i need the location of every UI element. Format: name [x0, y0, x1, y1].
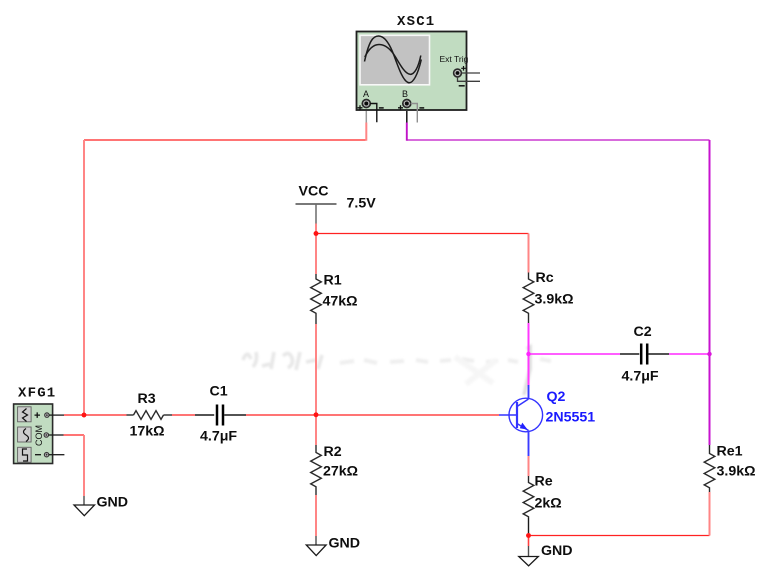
Ext Trig terminal — [454, 69, 462, 77]
wire: scope A probe drop — [365, 111, 367, 123]
wire: VCC to node — [315, 224, 317, 234]
wire: scope A net horizontal y=140 — [84, 139, 366, 141]
XFG1 function generator — [14, 386, 65, 464]
svg-text:B: B — [402, 89, 408, 99]
svg-text:3.9kΩ: 3.9kΩ — [535, 292, 574, 308]
node: input junction — [82, 413, 87, 418]
svg-text:A: A — [363, 89, 369, 99]
node: VCC junction — [314, 231, 319, 236]
ground GND (R2) — [306, 536, 360, 556]
svg-text:C1: C1 — [210, 384, 228, 400]
node: emitter ground junction — [526, 533, 531, 538]
wire: R3 to C1 — [172, 414, 195, 416]
wire: node to R2 — [315, 415, 317, 445]
wire: collector lead blue — [528, 385, 530, 399]
svg-text:GND: GND — [541, 543, 573, 559]
svg-text:C2: C2 — [634, 324, 652, 340]
oscilloscope XSC1 — [357, 14, 481, 123]
resistor Rc 3.9k — [523, 270, 573, 323]
XFG1 pin stubs — [49, 414, 64, 416]
node: output — [707, 352, 711, 356]
svg-text:XFG1: XFG1 — [18, 386, 56, 402]
svg-text:VCC: VCC — [299, 184, 329, 200]
svg-text:R2: R2 — [324, 444, 342, 460]
svg-text:Ext Trig: Ext Trig — [440, 54, 469, 64]
node: divider junction — [314, 412, 319, 417]
capacitor C1 4.7uF — [195, 384, 246, 445]
wire: output node down to Re1 — [709, 354, 711, 445]
XFG1 - terminal — [35, 454, 41, 456]
svg-text:17kΩ: 17kΩ — [130, 424, 165, 440]
node: input junction — [82, 413, 87, 418]
wire: Re1 bottom riser — [709, 492, 711, 536]
svg-text:R1: R1 — [324, 273, 342, 289]
wire: scope B net horizontal y=140 — [407, 139, 710, 141]
node: emitter ground junction — [526, 533, 531, 538]
VCC power symbol — [296, 184, 377, 224]
resistor Re1 3.9k — [704, 444, 755, 493]
wire: XFG1 + to node — [64, 414, 84, 416]
wire: input node to R3 — [84, 414, 127, 416]
node: divider junction — [314, 413, 319, 418]
wire: scope B net vertical x=709.5 — [709, 140, 711, 354]
wire: collector to output node magenta — [528, 354, 530, 385]
wire: Rc to collector node magenta — [528, 323, 530, 354]
svg-text:2kΩ: 2kΩ — [535, 496, 562, 512]
wire: R2 to ground — [315, 495, 317, 536]
svg-text:3.9kΩ: 3.9kΩ — [717, 464, 756, 480]
svg-text:XSC1: XSC1 — [397, 14, 435, 30]
wire: scope B probe drop — [406, 111, 408, 123]
resistor R2 27k — [311, 444, 358, 495]
scope waveform trace 1 — [365, 36, 422, 83]
wire: collector node to C2 magenta — [529, 353, 621, 355]
svg-text:2N5551: 2N5551 — [546, 410, 596, 426]
wire: R1 to base node — [315, 324, 317, 415]
node: VCC junction — [314, 231, 319, 236]
svg-text:R3: R3 — [138, 391, 156, 407]
wire: scope A net vertical x=84 down to XFG1 + node — [83, 140, 85, 415]
resistor Re 2k — [523, 474, 561, 519]
node: collector output — [526, 352, 530, 356]
svg-text:Re1: Re1 — [717, 444, 743, 460]
wire: C1 to base — [246, 414, 499, 416]
svg-text:GND: GND — [329, 536, 361, 552]
ground GND (emitter) — [519, 536, 573, 566]
ground GND (XFG1) — [74, 495, 128, 516]
wire: C2 to output net magenta — [669, 353, 710, 355]
wire: VCC rail down to Rc — [528, 234, 530, 273]
capacitor C2 4.7uF — [620, 324, 669, 385]
node: collector output — [526, 352, 530, 356]
wire: bottom rail — [529, 535, 710, 537]
node: output — [707, 352, 711, 356]
XFG1 + terminal — [35, 412, 41, 418]
wire: VCC rail horizontal y=233.5 — [316, 233, 529, 235]
scope waveform trace 2 — [365, 45, 421, 75]
svg-text:4.7μF: 4.7μF — [200, 429, 237, 445]
svg-text:Q2: Q2 — [547, 389, 566, 405]
svg-text:Rc: Rc — [536, 270, 554, 286]
wire: node to R1 — [315, 234, 317, 275]
resistor R1 47k — [311, 273, 358, 325]
wire: emitter to Re red — [528, 456, 530, 476]
svg-text:7.5V: 7.5V — [347, 196, 377, 212]
svg-text:27kΩ: 27kΩ — [323, 464, 358, 480]
svg-text:COM: COM — [34, 425, 44, 446]
resistor R3 17k — [127, 391, 173, 440]
wire: Re to ground node black — [528, 518, 530, 536]
svg-text:Re: Re — [535, 474, 553, 490]
svg-text:4.7μF: 4.7μF — [622, 369, 659, 385]
svg-text:47kΩ: 47kΩ — [323, 294, 358, 310]
transistor Q2 2N5551 — [499, 389, 595, 432]
wire: XFG1 COM to ground — [64, 434, 85, 436]
wire: emitter lead blue — [528, 431, 530, 457]
svg-text:GND: GND — [97, 495, 129, 511]
